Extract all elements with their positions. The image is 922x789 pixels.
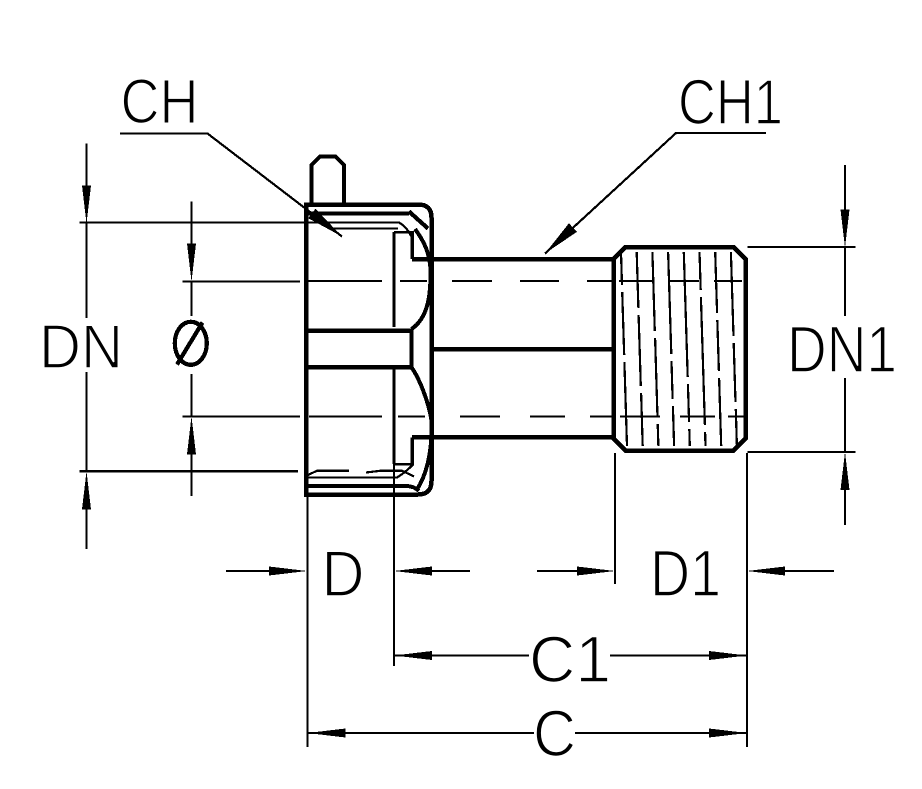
- leader CH: [120, 134, 342, 237]
- extension line knurl right down: [746, 453, 748, 747]
- dimension C row: [308, 729, 346, 738]
- hex waist upper edge: [304, 329, 412, 334]
- dimension diameter vertical line: [190, 202, 192, 497]
- extension line hex left down: [306, 497, 308, 747]
- extension line knurl left down: [614, 453, 616, 584]
- dimension D row: [226, 570, 269, 572]
- knurl thread lines: [621, 252, 737, 446]
- svg-text:CH: CH: [121, 67, 199, 137]
- bore dashed line upper: [307, 280, 742, 282]
- diameter extension line upper: [183, 280, 301, 282]
- internal thread bottom shoulder vertical: [411, 438, 415, 466]
- top tab: [312, 157, 345, 207]
- hex top-right corner chamfer diagonal: [409, 212, 428, 229]
- svg-text:C: C: [533, 696, 576, 770]
- shaft center solid line: [430, 347, 614, 352]
- internal thread depth line upper: [393, 232, 396, 327]
- svg-text:D1: D1: [650, 536, 721, 610]
- hex bottom chamfer jogged thin line: [306, 471, 414, 477]
- DN1 extension line lower: [748, 451, 856, 453]
- DN1 arrow down: [841, 210, 850, 248]
- extension line thread depth down: [393, 464, 395, 666]
- svg-text:CH1: CH1: [678, 66, 783, 138]
- leader CH1: [545, 133, 766, 254]
- diameter arrow down: [187, 244, 196, 282]
- hex lower-right chamfer arc: [412, 368, 432, 491]
- hex waist right connector: [410, 329, 414, 369]
- dimension C1 row: [394, 651, 432, 660]
- hex top inner chamfer band line: [304, 212, 409, 216]
- dimension DN1 vertical line: [844, 165, 846, 525]
- hex bottom inner chamfer band line: [304, 486, 419, 491]
- DN1 arrow up: [841, 452, 850, 490]
- internal thread top shoulder: [394, 231, 412, 234]
- bore dashed line lower: [309, 415, 745, 417]
- DN arrow up: [82, 471, 91, 509]
- hex bottom chamfer thin line: [306, 465, 413, 478]
- svg-text:DN: DN: [39, 313, 123, 382]
- internal thread bottom shoulder: [394, 463, 412, 466]
- shaft top edge: [412, 257, 614, 262]
- DN1 extension line upper: [748, 246, 856, 248]
- hex bottom extension thin line (DN lower): [80, 470, 299, 472]
- svg-text:DN1: DN1: [787, 312, 897, 386]
- DN arrow down: [82, 186, 91, 224]
- svg-text:D: D: [322, 537, 365, 610]
- hex top chamfer thin line: [80, 223, 412, 237]
- hex top chamfer second thin line: [330, 227, 398, 229]
- diameter arrow up: [187, 416, 196, 454]
- svg-text:C1: C1: [529, 622, 611, 696]
- dimension DN vertical line: [85, 144, 87, 550]
- hex waist lower edge: [304, 365, 412, 370]
- hex upper-right chamfer arc: [412, 229, 431, 329]
- label diameter: [175, 322, 207, 365]
- shaft bottom edge: [412, 435, 614, 440]
- knurl outline: [614, 247, 746, 451]
- hex nut body outer outline: [304, 203, 432, 497]
- dimension D1 row: [537, 570, 577, 572]
- internal thread depth line lower: [393, 370, 396, 465]
- internal thread top shoulder vertical: [411, 231, 415, 259]
- diameter extension line lower: [183, 415, 301, 417]
